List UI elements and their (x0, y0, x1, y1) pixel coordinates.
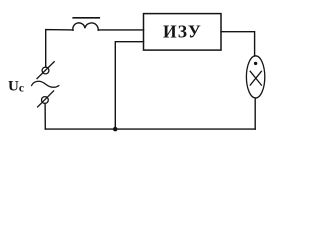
AC tilde (~) between terminals (32, 81, 59, 87)
inductor L1 winding (two humps) (73, 23, 98, 30)
terminal X1 upper slash (37, 62, 54, 79)
wire: lamp bottom lead down and bottom-right corner (254, 98, 256, 129)
lamp EL1 electrode dot (254, 62, 257, 65)
wire: IZU lower-left pin to junction, down to bottom wire (115, 42, 143, 129)
wire: lower circle to bottom-left corner (44, 103, 46, 129)
junction node (dot) on bottom wire (113, 127, 118, 132)
terminal X2 lower circle (42, 97, 49, 104)
IZU box U1 outline (144, 14, 222, 51)
svg-text:Uc: Uc (8, 78, 24, 94)
wire: inductor to IZU box left pin (top) (98, 29, 143, 31)
lamp EL1 cross (X) (250, 71, 261, 85)
inductor L1 core bar (73, 17, 99, 19)
terminal X2 lower slash (38, 91, 54, 107)
lamp EL1 bulb (ellipse) (246, 56, 264, 98)
wire: IZU right pin to lamp top lead (221, 32, 255, 56)
svg-text:ИЗУ: ИЗУ (163, 21, 202, 41)
wire: bottom horizontal return (45, 128, 255, 130)
terminal X1 upper circle (42, 67, 49, 74)
wire: left vertical upper segment and top horizontal to inductor (46, 30, 73, 68)
